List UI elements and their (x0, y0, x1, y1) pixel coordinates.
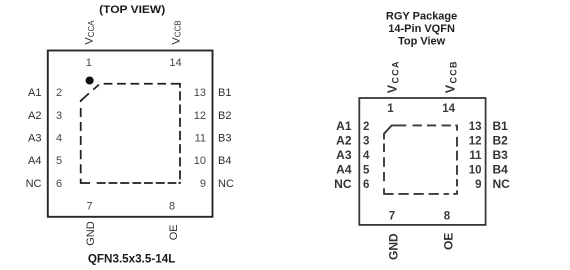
svg-text:A3: A3 (28, 133, 41, 145)
svg-text:(TOP VIEW): (TOP VIEW) (99, 4, 165, 16)
svg-text:VCCA: VCCA (84, 20, 96, 45)
svg-text:B4: B4 (493, 163, 509, 177)
svg-text:9: 9 (475, 179, 481, 191)
svg-text:2: 2 (56, 87, 62, 99)
svg-text:VCCA: VCCA (386, 60, 401, 93)
svg-text:4: 4 (363, 150, 370, 162)
svg-text:A2: A2 (336, 134, 352, 148)
svg-text:B3: B3 (218, 133, 231, 145)
svg-text:A4: A4 (336, 163, 352, 177)
svg-text:10: 10 (469, 165, 482, 177)
svg-text:7: 7 (86, 201, 92, 213)
svg-text:RGY Package: RGY Package (386, 10, 457, 22)
svg-text:VCCB: VCCB (444, 60, 459, 93)
svg-text:B3: B3 (493, 148, 509, 162)
svg-text:1: 1 (387, 103, 394, 115)
svg-text:A1: A1 (28, 87, 41, 99)
svg-text:6: 6 (56, 178, 62, 190)
svg-text:11: 11 (195, 133, 206, 145)
svg-text:VCCB: VCCB (170, 20, 182, 44)
svg-text:5: 5 (363, 165, 370, 177)
svg-text:GND: GND (386, 233, 400, 260)
svg-text:10: 10 (194, 155, 206, 167)
svg-text:7: 7 (389, 211, 395, 223)
svg-text:11: 11 (469, 150, 482, 162)
svg-text:Top View: Top View (398, 36, 446, 48)
svg-text:1: 1 (86, 57, 92, 69)
svg-text:A1: A1 (336, 119, 352, 133)
svg-text:14: 14 (169, 57, 181, 69)
svg-text:B2: B2 (218, 110, 231, 122)
svg-text:13: 13 (469, 121, 482, 133)
svg-text:9: 9 (200, 178, 206, 190)
svg-text:GND: GND (85, 221, 97, 246)
svg-text:QFN3.5x3.5-14L: QFN3.5x3.5-14L (88, 252, 176, 266)
svg-text:8: 8 (444, 211, 451, 223)
svg-text:3: 3 (56, 110, 62, 122)
svg-text:NC: NC (26, 178, 42, 190)
svg-text:B1: B1 (218, 87, 231, 99)
svg-text:OE: OE (168, 224, 180, 240)
svg-text:B4: B4 (218, 155, 231, 167)
svg-text:13: 13 (194, 87, 206, 99)
svg-text:8: 8 (169, 201, 175, 213)
svg-text:14: 14 (442, 103, 455, 115)
svg-text:A4: A4 (28, 155, 41, 167)
svg-text:NC: NC (218, 178, 234, 190)
svg-text:4: 4 (56, 133, 62, 145)
svg-text:A3: A3 (336, 148, 352, 162)
svg-text:6: 6 (363, 179, 369, 191)
svg-text:12: 12 (194, 110, 206, 122)
svg-text:14-Pin VQFN: 14-Pin VQFN (388, 23, 455, 35)
svg-text:NC: NC (334, 177, 352, 191)
svg-text:B1: B1 (493, 119, 509, 133)
svg-text:5: 5 (56, 155, 62, 167)
svg-text:A2: A2 (28, 110, 41, 122)
svg-text:B2: B2 (493, 134, 509, 148)
svg-text:12: 12 (469, 136, 482, 148)
svg-text:NC: NC (493, 177, 511, 191)
svg-text:2: 2 (363, 121, 369, 133)
svg-text:3: 3 (363, 136, 369, 148)
svg-text:OE: OE (441, 233, 455, 250)
